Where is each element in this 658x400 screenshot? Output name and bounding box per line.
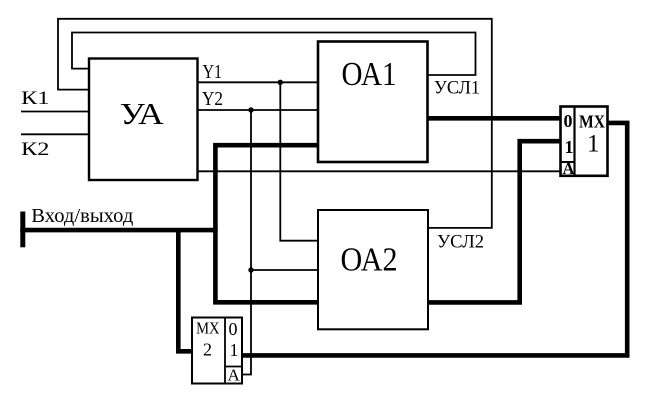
svg-text:А: А — [563, 159, 575, 178]
block ОА2 — [318, 210, 428, 329]
svg-text:МХ: МХ — [579, 112, 605, 132]
svg-text:Y1: Y1 — [203, 61, 223, 83]
svg-text:А: А — [228, 366, 241, 385]
wire: bus Вход/выход terminal bar — [20, 212, 25, 248]
wire: bus ОА2 to МХ1 input 1 — [428, 141, 561, 302]
block УА — [89, 59, 198, 181]
wire: Y1 from УА to ОА1 — [198, 81, 319, 83]
block МХ1 — [561, 107, 608, 176]
node: junction Y1 — [278, 80, 283, 85]
node: junction Y2 — [248, 107, 253, 112]
wire: bus branch to МХ2 — [178, 228, 192, 351]
svg-text:2: 2 — [203, 340, 212, 360]
svg-text:1: 1 — [230, 340, 239, 360]
wire: bus ОА1 to МХ1 input 0 — [428, 116, 561, 121]
svg-text:1: 1 — [587, 131, 600, 158]
wire: bus Вход/выход horizontal — [20, 228, 217, 233]
wire: Y2 branch down to МХ2 input A — [242, 110, 251, 375]
svg-text:МХ: МХ — [196, 319, 220, 338]
block МХ2 — [192, 318, 242, 384]
svg-text:УСЛ2: УСЛ2 — [437, 233, 484, 253]
svg-text:К2: К2 — [21, 139, 50, 160]
svg-text:ОА1: ОА1 — [342, 56, 397, 93]
wire: Y2 from УА to ОА1 — [198, 109, 319, 111]
wire: Y2 branch to ОА2 — [251, 269, 318, 271]
wire: feedback УСЛ2 from ОА2 to УА — [58, 19, 492, 228]
node: junction Y2-ОА2 — [248, 267, 253, 272]
svg-text:УА: УА — [120, 97, 164, 131]
wire: feedback УСЛ1 from ОА1 to УА — [72, 33, 476, 76]
wire: input К2 — [21, 133, 89, 135]
wire: bus branch to ОА1 and ОА2 — [215, 145, 318, 302]
wire: Y1 branch to ОА2 — [280, 82, 318, 240]
block ОА1 — [318, 42, 428, 163]
wire: input К1 — [21, 111, 89, 113]
svg-text:К1: К1 — [21, 88, 50, 109]
svg-text:0: 0 — [229, 319, 238, 339]
svg-text:1: 1 — [565, 137, 574, 157]
svg-text:Вход/выход: Вход/выход — [31, 206, 133, 227]
wire: A control from УА to МХ1 input A — [198, 170, 561, 172]
svg-text:Y2: Y2 — [202, 88, 223, 110]
svg-text:УСЛ1: УСЛ1 — [434, 79, 480, 99]
wire: bus МХ1 output to МХ2 input 1 — [242, 123, 627, 356]
svg-text:ОА2: ОА2 — [341, 242, 398, 279]
svg-text:0: 0 — [564, 111, 573, 131]
